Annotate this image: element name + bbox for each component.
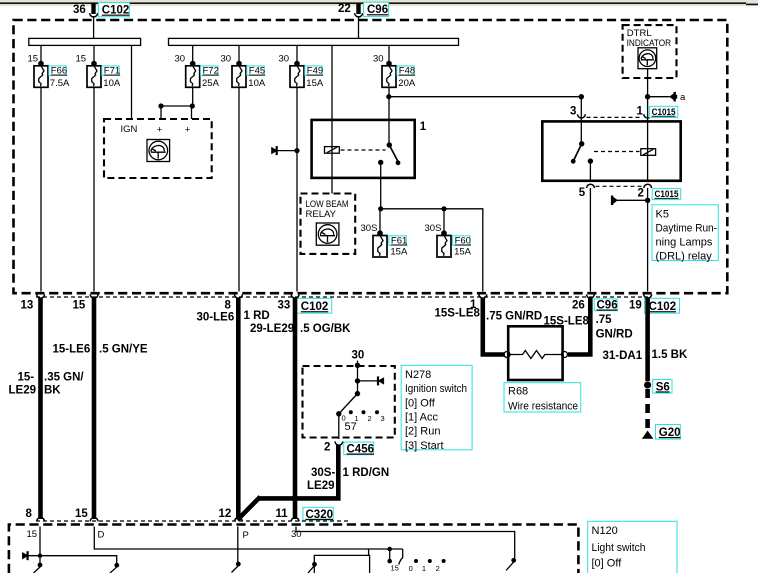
splice S6 bbox=[644, 379, 672, 393]
fuse F61 15A (stub from rail) bbox=[361, 209, 408, 257]
svg-text:P: P bbox=[243, 530, 249, 541]
svg-text:F66: F66 bbox=[51, 66, 67, 77]
wire: bus1 to F71 bbox=[93, 45, 95, 62]
bus bar 1 bbox=[29, 38, 141, 45]
svg-text:1 RD/GN: 1 RD/GN bbox=[343, 467, 390, 479]
junction on F48 wire, wire right to DRL relay pin 3 bbox=[386, 94, 581, 99]
svg-text:1: 1 bbox=[420, 121, 427, 133]
svg-text:F48: F48 bbox=[399, 66, 415, 77]
fuse F72 25A bbox=[175, 54, 220, 89]
labels inside light switch box bbox=[27, 529, 302, 541]
svg-text:30-LE6: 30-LE6 bbox=[197, 312, 235, 324]
svg-text:10A: 10A bbox=[248, 78, 266, 89]
wire: DRL pin 1 through coil to pin 2 bbox=[647, 121, 649, 180]
svg-text:GN/RD: GN/RD bbox=[596, 329, 633, 341]
svg-text:57: 57 bbox=[345, 421, 357, 433]
pin 13 at border bbox=[21, 294, 45, 311]
svg-text:30: 30 bbox=[175, 54, 186, 65]
svg-text:5: 5 bbox=[579, 187, 586, 199]
svg-text:15: 15 bbox=[28, 54, 39, 65]
svg-text:30S-: 30S- bbox=[311, 467, 335, 479]
svg-text:.75 GN/RD: .75 GN/RD bbox=[486, 311, 542, 323]
wire: F48 down to relay 1 switch bbox=[388, 87, 390, 145]
IGN module symbol bbox=[147, 140, 170, 162]
svg-text:30S: 30S bbox=[361, 223, 378, 234]
svg-text:0: 0 bbox=[409, 564, 413, 573]
fuse F45 10A bbox=[221, 54, 266, 89]
DRL relay coil bbox=[641, 149, 656, 156]
K5 relay label box bbox=[652, 205, 718, 263]
R68 wire resistance box bbox=[504, 326, 568, 380]
svg-text:30: 30 bbox=[352, 350, 365, 362]
wire: C96-22 down to bus bar 2 bbox=[358, 17, 360, 38]
pin 11 / connector C320 at bottom border bbox=[276, 507, 334, 521]
svg-text:F60: F60 bbox=[455, 236, 471, 247]
svg-text:15: 15 bbox=[27, 529, 38, 540]
junction + left continuation arrow below pin 2 bbox=[611, 196, 650, 206]
fuse F48 20A bbox=[373, 54, 416, 89]
svg-text:31-DA1: 31-DA1 bbox=[603, 350, 643, 362]
wire 1 RD/GN from C456 down/left bbox=[259, 445, 339, 498]
DRL relay pin 3 bbox=[570, 106, 585, 118]
node 22 / connector C96 top bbox=[338, 2, 389, 17]
svg-text:10A: 10A bbox=[103, 78, 121, 89]
svg-text:15A: 15A bbox=[390, 246, 408, 257]
svg-text:3: 3 bbox=[570, 106, 576, 118]
pin 8 at border bbox=[225, 294, 243, 311]
DTRL indicator lamp symbol bbox=[638, 48, 657, 69]
dashed ground wire below S6 bbox=[645, 389, 650, 431]
svg-text:15A: 15A bbox=[306, 78, 324, 89]
pin 12 at bottom border bbox=[219, 508, 243, 521]
wire labels 30S-LE29 / 1 RD/GN bbox=[307, 467, 389, 492]
wire: F71 down to pin 15 bbox=[93, 87, 95, 291]
svg-text:15A: 15A bbox=[454, 246, 472, 257]
svg-text:[3] Start: [3] Start bbox=[405, 440, 444, 452]
wire: F72 down, jog to IGN box plus pins bbox=[158, 87, 195, 119]
dashed connector line C1015 top bbox=[587, 116, 643, 118]
light switch dashed box bbox=[9, 525, 579, 573]
svg-text:F49: F49 bbox=[307, 66, 323, 77]
thin dashed connector pin link line below border bbox=[36, 296, 648, 298]
svg-text:IGN: IGN bbox=[121, 124, 138, 135]
junction + left continuation arrow on F49 wire bbox=[271, 146, 299, 155]
pin 2 / connector C456 bbox=[324, 441, 374, 455]
wire 15-LE6 .5 GN/YE (pin 15 to pin 15) bbox=[92, 298, 97, 520]
pin 8 at bottom border bbox=[26, 508, 45, 521]
svg-text:19: 19 bbox=[629, 300, 642, 312]
pin 15 at bottom border bbox=[75, 508, 98, 521]
wire from pin 8 down to rail bbox=[39, 527, 41, 556]
svg-text:1 RD: 1 RD bbox=[244, 310, 270, 322]
junction + arrow a bbox=[645, 92, 686, 103]
svg-text:D: D bbox=[98, 530, 105, 541]
svg-text:.5 GN/YE: .5 GN/YE bbox=[99, 344, 148, 356]
svg-text:C456: C456 bbox=[347, 444, 375, 456]
relay 1 mechanical dashed link bbox=[341, 149, 386, 151]
top window edge strip bbox=[0, 0, 758, 8]
30S rail wire to pin 1 bbox=[378, 206, 483, 291]
wire: bus2 tap through relay 1 coil down to low beam relay bbox=[331, 45, 333, 193]
svg-text:Ignition switch: Ignition switch bbox=[405, 383, 467, 395]
wire 31-DA1 1.5 BK down to S6 bbox=[645, 298, 650, 382]
relay 1 coil bbox=[325, 147, 340, 154]
wire 30 from pin 11 bbox=[296, 527, 516, 571]
svg-text:a: a bbox=[680, 92, 686, 103]
pin 1 at border bbox=[435, 294, 487, 319]
svg-text:C102: C102 bbox=[649, 301, 677, 313]
svg-text:30: 30 bbox=[221, 54, 232, 65]
wire: bus2 to F48 bbox=[388, 45, 390, 62]
svg-text:Wire resistance: Wire resistance bbox=[508, 401, 578, 413]
outer dashed box (engine compartment region) bbox=[14, 20, 728, 293]
svg-text:+: + bbox=[185, 125, 191, 136]
fuse F60 15A (stub from rail) bbox=[425, 209, 472, 257]
R68 label box bbox=[504, 383, 581, 413]
svg-text:K5: K5 bbox=[656, 209, 669, 221]
wire: ignition output 57 down to C456 bbox=[338, 414, 340, 439]
svg-text:C102: C102 bbox=[301, 301, 329, 313]
svg-text:36: 36 bbox=[73, 4, 86, 16]
wire: F66 down to pin 13 bbox=[40, 87, 42, 291]
svg-text:2: 2 bbox=[324, 442, 330, 454]
N120 light switch label box bbox=[588, 521, 677, 573]
svg-text:30: 30 bbox=[373, 54, 384, 65]
pin 26 / connector C96 at border bbox=[572, 294, 618, 311]
LOW BEAM RELAY dashed box bbox=[301, 194, 356, 254]
svg-text:15-LE6: 15-LE6 bbox=[53, 344, 91, 356]
svg-text:3: 3 bbox=[381, 414, 385, 423]
wire: C102-36 down to bus bar 1 bbox=[93, 17, 95, 38]
DTRL INDICATOR dashed box bbox=[623, 25, 677, 78]
wire: DRL pin 5 down to pin 26 bbox=[589, 188, 591, 292]
svg-text:25A: 25A bbox=[202, 78, 220, 89]
thin dashed connector link C320 bbox=[36, 520, 348, 522]
wire: DRL pin 2 down to pin 19 bbox=[647, 188, 649, 292]
wire: F45 down to pin 8 bbox=[238, 87, 240, 291]
svg-text:15: 15 bbox=[391, 564, 399, 573]
switch contact at x117 bbox=[110, 563, 119, 573]
N278 label box bbox=[401, 365, 472, 452]
wire 15-LE29 .35 GN/BK (pin 13 to pin 8) bbox=[38, 298, 43, 520]
wire: bus1 right tap down to IGN box bbox=[131, 45, 133, 119]
svg-text:33: 33 bbox=[278, 300, 291, 312]
svg-text:2: 2 bbox=[638, 187, 644, 199]
svg-text:[0] Off: [0] Off bbox=[592, 558, 623, 570]
IGN module dashed box bbox=[104, 119, 212, 178]
svg-text:1: 1 bbox=[637, 106, 644, 118]
svg-text:2: 2 bbox=[368, 414, 372, 423]
diagonal wire into pin 12 bbox=[237, 497, 260, 520]
svg-text:Daytime Run-: Daytime Run- bbox=[656, 223, 718, 235]
svg-text:29-LE29: 29-LE29 bbox=[250, 323, 294, 335]
svg-text:C320: C320 bbox=[306, 509, 334, 521]
wire labels left region bbox=[9, 310, 352, 397]
svg-text:8: 8 bbox=[26, 508, 33, 520]
svg-text:LE29: LE29 bbox=[307, 480, 335, 492]
wire: relay 1 contact down to 30S rail bbox=[380, 162, 382, 208]
svg-text:C102: C102 bbox=[102, 5, 130, 17]
svg-text:15: 15 bbox=[73, 300, 86, 312]
DRL relay pin 1 / connector C1015 bbox=[637, 106, 678, 118]
pin 19 / connector C102 at border bbox=[629, 294, 680, 313]
switch contact below pin 8 wire bbox=[34, 556, 43, 573]
wire labels 31-DA1 / 1.5 BK bbox=[603, 349, 688, 362]
DRL relay K5 box bbox=[542, 121, 680, 180]
wire P from pin 12 bbox=[232, 527, 241, 573]
wire: bus2 to F45 bbox=[238, 45, 240, 62]
wire: DTRL indicator down to DRL relay pin 1 bbox=[647, 69, 649, 122]
svg-text:N278: N278 bbox=[405, 369, 431, 381]
relay 1 box bbox=[312, 120, 427, 178]
svg-text:[2] Run: [2] Run bbox=[405, 426, 440, 438]
low beam relay symbol bbox=[316, 223, 339, 245]
wire: F49 down to pin 33 bbox=[296, 87, 298, 291]
svg-text:30: 30 bbox=[279, 54, 290, 65]
svg-text:F45: F45 bbox=[249, 66, 265, 77]
wire .5 OG/BK (pin 33 down) bbox=[293, 298, 298, 520]
svg-text:22: 22 bbox=[338, 3, 351, 15]
pin 33 / connector C102 at border bbox=[278, 294, 332, 313]
svg-text:[0] Off: [0] Off bbox=[405, 397, 436, 409]
wire label .75 GN/RD (pin 26) bbox=[596, 314, 633, 341]
svg-text:C1015: C1015 bbox=[652, 107, 676, 117]
ground G20 bbox=[642, 425, 681, 440]
DRL relay mechanical dashed link bbox=[594, 151, 640, 153]
svg-text:15: 15 bbox=[75, 508, 88, 520]
svg-text:G20: G20 bbox=[659, 427, 681, 439]
svg-text:RELAY: RELAY bbox=[306, 209, 337, 220]
svg-text:1.5 BK: 1.5 BK bbox=[652, 349, 688, 361]
svg-text:15S-LE8: 15S-LE8 bbox=[435, 308, 481, 320]
node 36 / connector C102 top bbox=[73, 3, 129, 17]
svg-text:26: 26 bbox=[572, 300, 585, 312]
svg-text:11: 11 bbox=[276, 508, 289, 520]
svg-text:[1] Acc: [1] Acc bbox=[405, 412, 439, 424]
svg-text:1: 1 bbox=[422, 564, 426, 573]
bus bar 2 bbox=[169, 38, 459, 45]
svg-text:(DRL) relay: (DRL) relay bbox=[656, 251, 713, 263]
svg-text:8: 8 bbox=[225, 300, 232, 312]
DRL relay pin 5 bbox=[579, 184, 595, 199]
wire: bus2 to F49 bbox=[296, 45, 298, 62]
svg-text:ning Lamps: ning Lamps bbox=[656, 237, 713, 249]
pin 15 at border bbox=[73, 294, 99, 311]
wire .75 GN/RD to R68 right bbox=[568, 298, 590, 355]
svg-text:Light switch: Light switch bbox=[592, 542, 646, 554]
svg-text:15: 15 bbox=[76, 54, 87, 65]
svg-text:S6: S6 bbox=[656, 381, 670, 393]
svg-text:C96: C96 bbox=[597, 300, 618, 312]
svg-text:.75: .75 bbox=[596, 314, 613, 326]
fuse F49 15A bbox=[279, 54, 324, 89]
svg-text:13: 13 bbox=[21, 300, 34, 312]
DRL relay switch bbox=[571, 141, 593, 164]
ignition switch blade and positions bbox=[336, 391, 385, 433]
wire 30-LE6 (pin 8 to pin 12) bbox=[236, 298, 241, 520]
wire: bus2 to F72 bbox=[192, 45, 194, 62]
node 30 (ignition feed) bbox=[352, 350, 365, 394]
svg-text:N120: N120 bbox=[592, 525, 618, 537]
svg-text:LE29: LE29 bbox=[9, 385, 37, 397]
svg-text:.35 GN/: .35 GN/ bbox=[44, 372, 84, 384]
mini ignition style switch bottom right bbox=[387, 547, 445, 573]
fuse F71 10A bbox=[76, 54, 121, 89]
svg-text:C96: C96 bbox=[367, 4, 388, 16]
svg-text:15-: 15- bbox=[18, 372, 35, 384]
svg-text:F72: F72 bbox=[203, 66, 219, 77]
svg-text:.5 OG/BK: .5 OG/BK bbox=[300, 323, 351, 335]
svg-text:F61: F61 bbox=[391, 236, 407, 247]
wire: junction dot to DRL relay pin 3 bbox=[579, 94, 584, 144]
rail with left arrow bbox=[22, 551, 117, 563]
svg-text:R68: R68 bbox=[508, 386, 528, 398]
wire: DRL contact down to pin 5 bbox=[589, 161, 591, 181]
svg-text:C1015: C1015 bbox=[655, 189, 679, 199]
wire: bus1 to F66 bbox=[40, 45, 42, 62]
wire D from pin 15 bbox=[94, 527, 402, 550]
svg-text:12: 12 bbox=[219, 508, 232, 520]
svg-text:7.5A: 7.5A bbox=[50, 78, 70, 89]
ignition switch N278 dashed box bbox=[303, 366, 395, 438]
svg-text:2: 2 bbox=[436, 564, 440, 573]
svg-text:BK: BK bbox=[44, 385, 61, 397]
dashed connector line C1015 bottom bbox=[596, 185, 643, 187]
fuse F66 7.5A bbox=[28, 54, 71, 89]
arrow right inside ignition switch bbox=[355, 376, 384, 385]
svg-text:F71: F71 bbox=[104, 66, 120, 77]
relay 1 switch bbox=[378, 142, 400, 165]
DRL relay pin 2 / connector C1015 bbox=[638, 184, 681, 199]
svg-text:20A: 20A bbox=[398, 78, 416, 89]
component box bottom centre bbox=[308, 549, 370, 573]
wire 15S-LE8 .75 GN/RD to R68 left bbox=[483, 298, 505, 355]
svg-text:30S: 30S bbox=[425, 223, 442, 234]
svg-text:+: + bbox=[157, 125, 163, 136]
